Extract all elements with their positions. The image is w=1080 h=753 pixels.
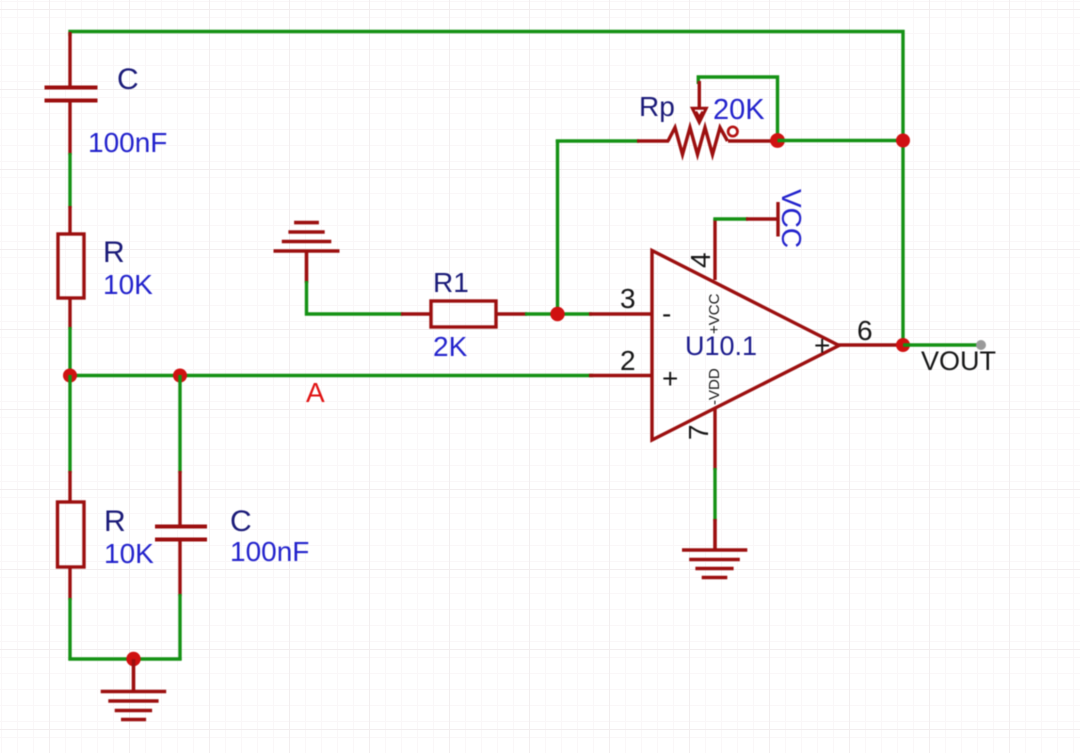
junction Rp right [770,133,785,148]
svg-text:-: - [662,298,671,329]
svg-text:R: R [104,505,126,538]
wire node A row to op-amp pin 2 [70,374,593,377]
svg-text:3: 3 [620,283,636,314]
svg-text:2: 2 [620,345,636,376]
svg-text:U10.1: U10.1 [685,331,757,361]
ground (bottom-left) [101,659,167,720]
svg-text:7: 7 [683,424,714,440]
svg-text:100nF: 100nF [230,536,309,567]
op-amp pin 2 stub [589,374,653,377]
svg-text:10K: 10K [103,269,153,300]
svg-text:20K: 20K [713,94,765,126]
junction right column at Rp row [896,134,910,148]
VCC power symbol [746,202,778,237]
resistor R (top-left) [58,206,84,329]
wire pin4 to VCC [713,217,748,220]
svg-text:R: R [103,236,125,269]
svg-text:A: A [306,377,325,408]
svg-text:VOUT: VOUT [921,346,996,376]
wire pin7 down [713,468,716,521]
wire lower C to bottom rail [178,594,181,661]
wire Rp left lead [556,139,639,142]
junction node A right [173,369,187,383]
wire ground to R1 [307,281,404,314]
op-amp U10.1 body [652,251,839,441]
wire node A down to lower R [68,375,71,473]
svg-text:R1: R1 [433,267,469,298]
svg-text:6: 6 [857,315,873,346]
junction node A left [63,369,77,383]
wire C to R [68,153,71,208]
wire R1 to pin3 junction [525,312,592,315]
op-amp pin 7 stub [713,409,716,470]
wire Rp to right column [778,139,904,142]
svg-text:VCC: VCC [776,189,807,248]
svg-text:+: + [814,330,830,361]
wire node A down to lower C [178,375,181,473]
svg-text:Rp: Rp [639,91,675,122]
wire lower R to bottom rail [68,598,71,661]
unconnected endpoint dot [976,340,986,350]
capacitor C (lower-left) [155,471,207,596]
wire VOUT [903,343,980,346]
svg-text:+: + [662,363,678,394]
junction bottom rail [126,652,140,666]
svg-text:C: C [117,63,139,96]
svg-text:+VCC: +VCC [706,293,723,334]
svg-text:-VDD: -VDD [706,368,723,405]
svg-text:100nF: 100nF [88,127,167,158]
svg-text:4: 4 [685,252,716,268]
wire R to node A [68,327,71,377]
ground (below op-amp) [682,519,747,578]
op-amp pin 6 output stub [838,343,903,346]
Rp wiper terminal circle [728,127,737,136]
junction output node [896,338,910,352]
capacitor C (top-left) [45,32,98,155]
potentiometer Rp [637,128,774,155]
svg-text:C: C [230,505,252,538]
op-amp pin 4 stub [713,219,716,280]
wire junction up to Rp row [556,140,559,315]
svg-text:2K: 2K [433,331,468,362]
ground (middle-left, inverted) [274,223,340,283]
junction pin3 node [550,307,564,321]
resistor R (lower-left) [58,471,85,600]
resistor R1 [401,301,527,327]
wire Rp wiper loop [698,77,777,137]
op-amp pin 3 stub [589,312,653,315]
svg-text:10K: 10K [104,538,154,569]
Rp wiper arrow [698,81,701,107]
wire top feedback loop from C top to right column down to output [70,32,903,346]
wire bottom rail [68,657,181,660]
